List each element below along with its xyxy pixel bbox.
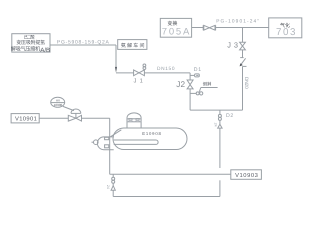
wire break to valve J3 (242, 50, 244, 58)
level gauge circle on head (92, 140, 99, 145)
wire J3 up to transfer line (242, 28, 244, 43)
svg-text:变压吸附提氢: 变压吸附提氢 (16, 39, 45, 46)
svg-text:24: 24 (214, 123, 218, 127)
drain at vessel outlet with funnel and spectacle blind (111, 174, 115, 196)
wire to valve J1 (116, 72, 134, 74)
label D1 (194, 67, 201, 73)
svg-text:D1: D1 (194, 67, 201, 73)
instrument balloon HV10908 (51, 97, 74, 110)
svg-text:703: 703 (276, 27, 296, 38)
box 气化 703 (269, 18, 302, 38)
svg-text:J 1: J 1 (134, 79, 143, 85)
line break symbol (240, 58, 247, 67)
valve J3 (227, 40, 245, 50)
svg-text:10908: 10908 (54, 103, 63, 107)
svg-text:705A: 705A (162, 27, 190, 38)
box tag V10903 (231, 170, 262, 180)
wire vertical into vessel head and down (109, 118, 111, 174)
svg-text:24: 24 (106, 185, 110, 189)
control valve HV with actuator (68, 109, 81, 121)
svg-text:己二酸: 己二酸 (23, 35, 35, 40)
wire check valve to gasification box (216, 27, 269, 29)
svg-text:倒淋: 倒淋 (203, 82, 212, 87)
wire bottom header (113, 196, 220, 198)
wire riser DN20 (242, 67, 244, 110)
label 24 at D2 funnel (214, 123, 218, 127)
label PG-10901-24" (216, 19, 259, 25)
spectacle blind at J1 (143, 64, 146, 70)
wire control valve to vessel corner (82, 117, 110, 119)
svg-text:解吸气压缩机: 解吸气压缩机 (11, 45, 41, 52)
drain branch with spectacle blind (190, 88, 218, 96)
internal distributor tube (114, 140, 158, 144)
svg-text:A/B: A/B (40, 47, 50, 54)
drain D2 with spectacle blind and funnel (218, 110, 222, 168)
svg-text:DN150: DN150 (157, 66, 175, 72)
svg-text:E10908: E10908 (142, 131, 161, 136)
vessel dome with demister (127, 113, 141, 128)
svg-text:氨解车间: 氨解车间 (121, 42, 145, 49)
label DN20 rotated (243, 77, 249, 89)
svg-text:DN20: DN20 (243, 77, 249, 89)
svg-text:V10903: V10903 (235, 172, 258, 179)
wire J2 down to header (189, 89, 191, 110)
insulation tag oval (190, 74, 199, 77)
vessel head assembly (97, 137, 113, 150)
box compressor source 己二酸变压吸附提氢解吸气压缩机A/B (11, 34, 50, 54)
wire J1 to J2 corner (144, 72, 190, 74)
wire header J2 to DN20 riser (190, 109, 242, 111)
svg-text:J2: J2 (176, 80, 185, 89)
wire drop with flow arrow (115, 45, 117, 73)
wire vessel outlet to V10903 (110, 173, 231, 175)
wire D2 drain lower segment (219, 180, 221, 196)
label DN150 (157, 66, 175, 72)
wire 705A to check valve (192, 27, 204, 29)
box 氨解车间 (118, 40, 147, 50)
box 变换 705A (160, 18, 191, 37)
svg-text:PG-10901-24": PG-10901-24" (216, 19, 259, 25)
wire from compressor box to nitrogen box (50, 44, 116, 46)
label 24 at vessel drain funnel (106, 185, 110, 189)
label PG-5908-159-Q2A (57, 40, 110, 46)
valve J2 (176, 80, 193, 89)
label D2 (226, 113, 233, 119)
svg-text:D2: D2 (226, 113, 233, 119)
wire V10901 to control valve (39, 117, 68, 119)
box tag V10901 (11, 114, 39, 123)
sparger diagonal line (111, 130, 122, 137)
wire corner down to valve J2 (189, 73, 191, 80)
label 倒淋 (203, 82, 212, 87)
valve J1 (134, 70, 145, 85)
svg-text:V10901: V10901 (15, 116, 37, 123)
vessel E10908 shell (113, 128, 187, 150)
check valve on transfer line (203, 25, 215, 30)
svg-text:J3: J3 (227, 40, 238, 49)
